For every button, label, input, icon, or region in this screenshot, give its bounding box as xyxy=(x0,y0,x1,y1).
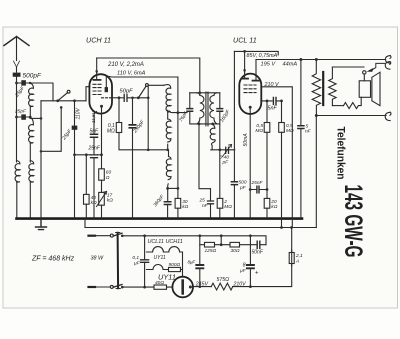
wire 210V feedback xyxy=(261,87,292,228)
node osc grid junction xyxy=(147,96,150,99)
svg-text:110V: 110V xyxy=(76,108,82,120)
wire T2 to chassis line xyxy=(315,116,317,228)
heater UCL11 xyxy=(147,247,183,252)
wire elco left column xyxy=(199,236,201,287)
UCL11 grids xyxy=(244,85,256,93)
UCH11 hexode grids xyxy=(93,84,101,94)
wire IF1 left frame xyxy=(190,93,199,124)
wire after 50pF xyxy=(127,97,148,99)
wire tube cathode down xyxy=(101,108,103,219)
resistor 575 Ohm barretter xyxy=(211,283,233,290)
wire UCL cathode column xyxy=(249,108,251,218)
capacitor 0,1uF mains xyxy=(141,260,149,263)
capacitor 50pF xyxy=(124,94,127,101)
wire row right part xyxy=(98,154,102,156)
wire UCH grid entry xyxy=(86,87,90,101)
wire antenna lead-in xyxy=(16,37,18,61)
wire pentode anode riser xyxy=(255,60,257,81)
svg-text:kΩ: kΩ xyxy=(271,204,277,210)
capacitor 76pF xyxy=(187,109,193,112)
svg-text:Telefunken: Telefunken xyxy=(335,127,347,180)
wire L3b bottom to corner xyxy=(167,144,169,150)
svg-text:50pF: 50pF xyxy=(120,89,134,95)
svg-text:MΩ: MΩ xyxy=(107,129,115,135)
svg-text:MΩ: MΩ xyxy=(286,128,294,134)
UCL11 cathode xyxy=(249,106,252,109)
resistor 2M xyxy=(217,198,223,208)
electrolytic 8uF left xyxy=(196,265,203,268)
wire 210V run xyxy=(249,285,252,288)
wire speaker return y=115.5 xyxy=(316,115,386,117)
svg-text:25nF: 25nF xyxy=(251,180,264,186)
wire 250pF column xyxy=(132,98,134,218)
wire elco right column xyxy=(249,236,251,287)
coil osc L3a xyxy=(164,85,171,112)
transformer T2 primary xyxy=(312,60,320,116)
transformer T2 secondary xyxy=(329,67,336,106)
coil L1a (wavetrap left) xyxy=(15,161,20,183)
wire link to 30k xyxy=(168,187,178,189)
wire fuse column xyxy=(233,228,292,287)
svg-text:143 GW-G: 143 GW-G xyxy=(339,185,367,258)
capacitor 5nF cathode xyxy=(91,134,98,137)
UCL11 pentode anode xyxy=(253,80,260,82)
svg-text:50mA: 50mA xyxy=(243,133,249,147)
capacitor 25nF cathode xyxy=(91,155,98,158)
svg-text:pF: pF xyxy=(239,185,247,191)
UCH11 triode anode xyxy=(105,89,108,91)
svg-text:A: A xyxy=(295,258,299,264)
transformer T2 core xyxy=(322,72,324,105)
resistor 900 Ohm xyxy=(169,267,181,271)
wire IF1 right frame xyxy=(219,93,221,150)
wire x=74.5 column xyxy=(74,101,76,218)
resistor 40k xyxy=(84,194,90,204)
band switch S1 xyxy=(56,99,59,102)
wire 25nF column xyxy=(210,189,212,218)
resistor 125 Ohm xyxy=(205,242,215,247)
wire cap2 links xyxy=(17,107,31,117)
wire to coil3 xyxy=(148,150,168,157)
switch mains top xyxy=(110,234,113,237)
node switch junction xyxy=(73,99,76,102)
coil L1b (wavetrap right) xyxy=(29,161,34,183)
measure box 210V xyxy=(97,58,200,95)
capacitor 360pF xyxy=(164,202,170,205)
svg-text:60: 60 xyxy=(106,170,112,176)
resistor 0,5M right xyxy=(279,123,285,133)
speaker magnet xyxy=(359,81,370,98)
capacitor 5nF coupling xyxy=(273,97,276,104)
resistor 0,5M left xyxy=(264,123,270,133)
node 0.1M top xyxy=(118,96,121,99)
resistor 20k xyxy=(264,198,270,208)
node tap xyxy=(40,117,43,120)
svg-text:110 V, 6mA: 110 V, 6mA xyxy=(117,71,146,77)
wire HT bypass column xyxy=(300,60,302,219)
svg-text:210V: 210V xyxy=(233,282,247,288)
capacitor 25pF trimmer top xyxy=(21,80,26,85)
heater chain right drop xyxy=(182,252,184,270)
svg-text:38 W: 38 W xyxy=(91,256,104,262)
capacitor 160pF xyxy=(217,109,223,112)
svg-text:575Ω: 575Ω xyxy=(217,277,230,283)
svg-text:245V: 245V xyxy=(195,282,209,288)
wire 0.5M-2 column xyxy=(281,101,283,228)
wire T1 bottom rail y=123.9 xyxy=(199,123,220,125)
coil osc L3c xyxy=(166,157,171,180)
svg-text:Ω: Ω xyxy=(106,175,110,181)
wire UCL grid line long x=234.4 xyxy=(233,51,235,218)
svg-text:2,1: 2,1 xyxy=(295,253,303,259)
potentiometer 17k xyxy=(99,192,105,205)
antenna xyxy=(4,37,29,46)
svg-text:+: + xyxy=(255,271,259,277)
measure box 85V xyxy=(234,51,278,55)
wire secondary bottom run xyxy=(332,105,343,107)
wire throw2 column xyxy=(41,107,61,151)
svg-text:pF: pF xyxy=(222,160,230,166)
UCH11 anode plate xyxy=(94,79,101,81)
svg-text:30Ω: 30Ω xyxy=(231,248,240,254)
wire to bus xyxy=(29,181,31,218)
wire secondary top run xyxy=(332,66,364,68)
svg-text:20: 20 xyxy=(270,199,277,205)
svg-text:UY11: UY11 xyxy=(158,273,176,282)
svg-text:kΩ: kΩ xyxy=(91,200,97,206)
capacitor 25nF cathode UCL xyxy=(257,186,259,193)
wire screen feed column x=177.9 xyxy=(177,77,179,198)
wire between osc windings xyxy=(167,110,169,119)
IF T1 secondary xyxy=(210,93,217,124)
wire osc coil top feed y=85.3 xyxy=(148,84,164,86)
capacitor 25pF 2 xyxy=(21,114,26,119)
speaker cone xyxy=(372,72,380,106)
wire chassis return y=227.5 xyxy=(85,220,316,228)
wire T1 top rail xyxy=(190,92,220,94)
tube UCL11 envelope xyxy=(239,74,261,114)
fuse 2,1A xyxy=(289,253,294,264)
wire to bus xyxy=(16,181,18,218)
svg-text:2: 2 xyxy=(223,199,227,205)
svg-text:0,1: 0,1 xyxy=(132,255,139,261)
mains stub bottom xyxy=(89,286,96,288)
svg-text:210 V, 2,2mA: 210 V, 2,2mA xyxy=(107,62,144,68)
wire cathode column x=94 xyxy=(94,112,97,219)
wire 0.5M-1 column xyxy=(266,101,268,218)
wire anode riser xyxy=(96,58,98,80)
wire IF2 bottom row xyxy=(211,149,235,151)
capacitor 500pF xyxy=(13,73,21,77)
svg-text:25pF: 25pF xyxy=(14,109,27,115)
svg-text:900Ω: 900Ω xyxy=(169,262,181,268)
measure box 110V xyxy=(106,76,178,77)
resistor voice-coil feed xyxy=(344,97,362,108)
coil L2b antenna xyxy=(29,117,34,143)
wire coil column down xyxy=(29,144,31,162)
svg-text:25nF: 25nF xyxy=(88,146,101,152)
capacitor 5nF HT xyxy=(298,126,304,129)
svg-text:50nF: 50nF xyxy=(252,250,264,256)
band switch S2 xyxy=(137,96,140,99)
wire bottom mains run xyxy=(122,286,172,288)
UY11 cathode node xyxy=(189,286,192,289)
electrolytic 8uF right xyxy=(247,265,254,268)
svg-text:MΩ: MΩ xyxy=(224,204,232,210)
svg-text:UCH11: UCH11 xyxy=(166,239,183,245)
wire rectifier output xyxy=(190,286,211,288)
node B+ junctions xyxy=(299,58,302,61)
svg-text:125Ω: 125Ω xyxy=(205,248,217,254)
connector hook bottom xyxy=(385,112,390,120)
svg-text:500: 500 xyxy=(239,180,247,186)
tube UCH11 envelope xyxy=(89,74,112,113)
svg-text:UCL11: UCL11 xyxy=(148,239,164,245)
IF T1 primary xyxy=(197,93,204,124)
wire grid line y=100.8 xyxy=(41,100,86,102)
switch mains bottom xyxy=(110,285,113,288)
ground bus xyxy=(17,217,303,220)
wire 5nF row y=100.9 xyxy=(261,100,282,102)
wire live rail y=235.8 xyxy=(122,236,266,245)
svg-text:UY11: UY11 xyxy=(154,255,166,261)
svg-text:5nF: 5nF xyxy=(268,106,278,112)
svg-text:ZF = 468 kHz: ZF = 468 kHz xyxy=(31,256,75,263)
capacitor 25pF AVC xyxy=(72,126,78,130)
wire AVC row y=154.8 xyxy=(75,154,91,156)
switch throw 2 xyxy=(60,106,63,109)
resistor 30k xyxy=(175,198,181,208)
IF transformer T1 core xyxy=(206,92,208,126)
wire 40k column xyxy=(85,155,87,218)
resistor 40 Ohm xyxy=(154,285,167,289)
wire band-switch feed xyxy=(30,83,53,101)
svg-text:25: 25 xyxy=(199,198,206,204)
wire 360pF to bus xyxy=(167,205,169,219)
svg-text:44mA: 44mA xyxy=(283,61,298,67)
resistor 30 Ohm xyxy=(230,242,240,247)
svg-text:μF: μF xyxy=(133,261,141,267)
ground symbol xyxy=(36,220,47,230)
wire 30k column xyxy=(177,208,179,218)
svg-text:17: 17 xyxy=(107,192,113,198)
svg-text:30: 30 xyxy=(182,199,188,205)
svg-text:UCH 11: UCH 11 xyxy=(86,36,111,45)
wire grid-leak jog xyxy=(199,124,211,189)
wire 2M column xyxy=(219,150,221,218)
heater dropper row y=244.7 xyxy=(200,244,266,246)
wire osc coil bottom to 76pF xyxy=(169,111,187,113)
svg-text:5nF: 5nF xyxy=(90,129,100,135)
wire UCL triode anode riser xyxy=(244,51,246,78)
B+ rail y=59.5 xyxy=(256,59,386,61)
mains stub top xyxy=(89,235,96,237)
switch pickup arrow xyxy=(372,63,385,69)
svg-text:500pF: 500pF xyxy=(23,73,42,80)
tube UY11 envelope xyxy=(172,277,193,298)
wire coil2 tap row y=118.4 xyxy=(30,117,41,119)
switch pickup contact xyxy=(363,71,366,74)
wire cathode bypass row xyxy=(250,189,267,191)
connector hook top xyxy=(385,56,390,64)
wire cap1 links xyxy=(17,82,31,84)
wire L3c bottom xyxy=(167,184,170,202)
wire 0.1uF column xyxy=(144,236,146,287)
capacitor 500pF grid xyxy=(231,182,237,185)
wire osc grid vertical xyxy=(147,85,149,150)
UCH11 cathode xyxy=(100,105,103,108)
wire wave-switch column x=41 xyxy=(40,101,42,218)
svg-text:85V, 0,75mA: 85V, 0,75mA xyxy=(247,53,278,59)
svg-text:8μF: 8μF xyxy=(187,260,195,265)
wire antenna column x=16.5 xyxy=(16,67,18,162)
svg-text:210 V: 210 V xyxy=(264,82,280,88)
svg-text:MΩ: MΩ xyxy=(255,128,263,134)
svg-text:UCL 11: UCL 11 xyxy=(233,36,257,45)
capacitor 50nF xyxy=(257,241,260,248)
antenna plug connector xyxy=(14,61,20,67)
coil L2a antenna xyxy=(29,83,34,107)
UY11 anode bar xyxy=(181,281,184,294)
trimmer 0-40pF xyxy=(226,147,229,153)
svg-text:kΩ: kΩ xyxy=(182,204,188,210)
svg-text:kΩ: kΩ xyxy=(107,198,113,204)
switch link bar xyxy=(117,233,120,289)
coil IF2 secondary xyxy=(210,124,215,150)
wire UCH grid2 coupling y=97.8 xyxy=(102,97,112,99)
coil osc L3b xyxy=(166,119,171,142)
svg-text:195 V: 195 V xyxy=(261,62,277,68)
capacitor 25nF osc xyxy=(208,201,214,204)
UCL11 triode anode xyxy=(242,78,248,80)
wire 0.1M column xyxy=(119,98,148,150)
resistor 0,1 MOhm xyxy=(116,123,121,133)
capacitor 250pF xyxy=(129,125,135,128)
resistor 60 Ohm xyxy=(99,169,105,180)
